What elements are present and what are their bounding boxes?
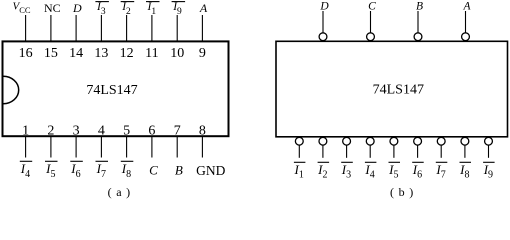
inversion bubble I7 xyxy=(437,137,445,145)
svg-text:I8: I8 xyxy=(459,162,469,181)
wire input I8 lead (b) xyxy=(464,145,466,158)
svg-text:I8: I8 xyxy=(121,161,131,180)
svg-text:6: 6 xyxy=(148,124,155,139)
svg-text:8: 8 xyxy=(199,124,206,139)
svg-text:I9: I9 xyxy=(483,162,493,181)
wire pin 6 lead (a) xyxy=(151,136,153,157)
index notch xyxy=(3,76,18,103)
pin label I6-bar xyxy=(70,161,83,180)
inversion bubble I4 xyxy=(366,137,374,145)
wire input I5 lead (b) xyxy=(393,145,395,158)
svg-text:D: D xyxy=(72,1,82,15)
wire output B lead (b) xyxy=(417,11,419,33)
wire input I1 lead (b) xyxy=(298,145,300,158)
wire pin 16 lead (a) xyxy=(25,15,27,41)
logic symbol U(b) 74LS147 outline xyxy=(276,41,508,137)
svg-text:I7: I7 xyxy=(435,162,445,181)
svg-text:I5: I5 xyxy=(388,162,398,181)
svg-text:I2: I2 xyxy=(121,1,131,17)
pin label I4-bar (b) xyxy=(364,162,376,181)
wire pin 12 lead (a) xyxy=(126,15,128,41)
svg-text:C: C xyxy=(368,0,376,12)
svg-text:74LS147: 74LS147 xyxy=(86,83,137,98)
pin label I2-bar (b) xyxy=(317,162,329,181)
inversion bubble I2 xyxy=(319,137,327,145)
svg-text:A: A xyxy=(199,1,208,15)
inversion bubble I1 xyxy=(295,137,303,145)
svg-text:12: 12 xyxy=(120,46,134,61)
pin label I6-bar (b) xyxy=(412,162,424,181)
pin label I9-bar (b) xyxy=(483,162,495,181)
svg-text:4: 4 xyxy=(98,124,105,139)
svg-text:I6: I6 xyxy=(70,161,80,180)
pin label I2-bar xyxy=(121,1,135,17)
svg-text:2: 2 xyxy=(47,124,54,139)
pin label I1-bar (b) xyxy=(294,162,306,181)
svg-text:7: 7 xyxy=(174,124,181,139)
wire pin 1 lead (a) xyxy=(25,136,27,157)
svg-text:I4: I4 xyxy=(364,162,374,181)
svg-text:I2: I2 xyxy=(317,162,327,181)
svg-text:10: 10 xyxy=(170,46,184,61)
svg-text:11: 11 xyxy=(145,46,158,61)
pin label I1-bar xyxy=(146,1,160,17)
inversion bubble I6 xyxy=(414,137,422,145)
pin label I8-bar xyxy=(121,161,134,180)
wire pin 15 lead (a) xyxy=(50,15,52,41)
wire input I4 lead (b) xyxy=(369,145,371,158)
wire pin 2 lead (a) xyxy=(50,136,52,157)
inversion bubble A xyxy=(462,33,470,41)
wire pin 14 lead (a) xyxy=(75,15,77,41)
wire pin 11 lead (a) xyxy=(151,15,153,41)
svg-text:I1: I1 xyxy=(294,162,304,181)
svg-text:A: A xyxy=(462,0,471,12)
svg-text:13: 13 xyxy=(94,46,108,61)
svg-text:I4: I4 xyxy=(20,161,30,180)
inversion bubble I8 xyxy=(461,137,469,145)
svg-text:I3: I3 xyxy=(341,162,351,181)
svg-text:3: 3 xyxy=(73,124,80,139)
svg-text:B: B xyxy=(416,0,423,12)
inversion bubble I3 xyxy=(343,137,351,145)
wire pin 7 lead (a) xyxy=(176,136,178,157)
svg-text:14: 14 xyxy=(69,46,83,61)
svg-text:( b ): ( b ) xyxy=(390,185,414,199)
inversion bubble D xyxy=(319,33,327,41)
svg-text:( a ): ( a ) xyxy=(108,185,131,199)
svg-text:5: 5 xyxy=(123,124,130,139)
svg-text:C: C xyxy=(149,162,158,177)
inversion bubble I9 xyxy=(485,137,493,145)
wire input I2 lead (b) xyxy=(322,145,324,158)
svg-text:16: 16 xyxy=(19,46,33,61)
pin label I4-bar xyxy=(20,161,32,180)
svg-text:NC: NC xyxy=(44,1,61,15)
wire output C lead (b) xyxy=(370,11,372,33)
svg-text:9: 9 xyxy=(199,46,206,61)
wire pin 4 lead (a) xyxy=(100,136,102,157)
svg-text:I7: I7 xyxy=(96,161,106,180)
pin label I3-bar xyxy=(95,1,109,17)
svg-text:B: B xyxy=(175,162,183,177)
svg-text:74LS147: 74LS147 xyxy=(373,82,424,97)
svg-text:I3: I3 xyxy=(96,1,106,17)
wire input I3 lead (b) xyxy=(346,145,348,158)
wire input I6 lead (b) xyxy=(417,145,419,158)
pin label I5-bar (b) xyxy=(388,162,400,181)
svg-text:I1: I1 xyxy=(147,1,157,17)
svg-text:15: 15 xyxy=(44,46,58,61)
wire pin 9 lead (a) xyxy=(201,15,203,41)
svg-text:I5: I5 xyxy=(45,161,55,180)
svg-text:VCC: VCC xyxy=(13,0,31,15)
pin label I7-bar xyxy=(96,161,109,180)
pin label I7-bar (b) xyxy=(435,162,447,181)
wire pin 8 lead (a) xyxy=(201,136,203,157)
wire pin 3 lead (a) xyxy=(75,136,77,157)
inversion bubble I5 xyxy=(390,137,398,145)
svg-text:D: D xyxy=(319,0,329,12)
wire output D lead (b) xyxy=(322,11,324,33)
pin label I3-bar (b) xyxy=(341,162,353,181)
svg-text:1: 1 xyxy=(22,124,29,139)
wire pin 5 lead (a) xyxy=(126,136,128,157)
svg-text:GND: GND xyxy=(196,163,225,178)
IC body U(a) 74LS147 DIP-16 outline xyxy=(3,41,229,136)
pin label I5-bar xyxy=(45,161,58,180)
pin label I8-bar (b) xyxy=(459,162,471,181)
svg-text:I9: I9 xyxy=(172,1,182,17)
inversion bubble C xyxy=(367,33,375,41)
wire input I7 lead (b) xyxy=(440,145,442,158)
wire input I9 lead (b) xyxy=(488,145,490,158)
inversion bubble B xyxy=(414,33,422,41)
wire pin 10 lead (a) xyxy=(176,15,178,41)
pin label I9-bar xyxy=(172,1,186,17)
wire pin 13 lead (a) xyxy=(100,15,102,41)
svg-text:I6: I6 xyxy=(412,162,422,181)
wire output A lead (b) xyxy=(465,11,467,33)
